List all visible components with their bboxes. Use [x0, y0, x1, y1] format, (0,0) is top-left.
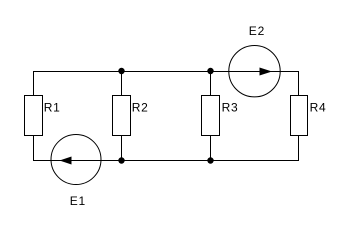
svg-text:R2: R2 — [132, 101, 149, 115]
svg-text:E2: E2 — [249, 24, 265, 38]
svg-text:E1: E1 — [70, 194, 86, 208]
source E2 — [229, 24, 280, 97]
junction dot bottom-left — [118, 157, 124, 163]
svg-text:R3: R3 — [222, 101, 239, 115]
resistor R3 — [202, 96, 239, 136]
wire R1 bottom lead — [33, 135, 35, 161]
source E1 — [51, 135, 101, 209]
wire top bus — [33, 71, 299, 73]
junction dot bottom-right — [207, 157, 213, 163]
svg-text:R1: R1 — [44, 101, 61, 115]
resistor R2 — [113, 96, 149, 136]
wire bottom bus — [33, 160, 299, 162]
wire R3 bottom lead — [210, 135, 212, 161]
resistor R4 — [291, 96, 327, 136]
junction dot top-right — [207, 68, 213, 74]
wire R3 top lead — [210, 71, 212, 96]
wire R4 bottom lead — [298, 135, 300, 161]
resistor R1 — [25, 96, 61, 136]
wire R1 top lead — [33, 71, 35, 96]
svg-text:R4: R4 — [310, 101, 327, 115]
wire R2 top lead — [121, 71, 123, 96]
wire R4 top lead — [298, 71, 300, 96]
junction dot top-left — [118, 68, 124, 74]
wire R2 bottom lead — [121, 135, 123, 161]
